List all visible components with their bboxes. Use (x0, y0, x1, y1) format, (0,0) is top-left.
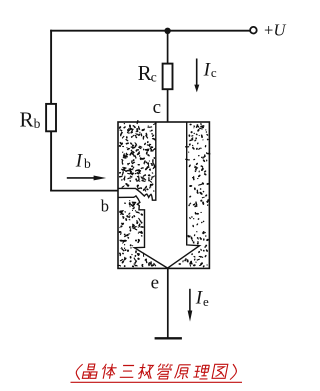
transistor body outer rectangle (118, 122, 209, 268)
ground bar (155, 337, 182, 339)
node junction dot at top rail / collector branch (164, 28, 170, 34)
transistor right N region boundary (left edge along arrow shaft, arrowhead right barb) (167, 122, 199, 268)
wire collector vertical lower (Rc to block c terminal) (167, 89, 169, 122)
terminal +U open circle (250, 27, 257, 34)
current arrow Ie (189, 289, 191, 311)
resistor Rb body (46, 104, 56, 131)
wire left vertical lower segment (Rb down to base wire) (50, 131, 52, 191)
current arrow Ic (196, 59, 198, 86)
wire left vertical upper segment (top rail down to Rb) (50, 30, 52, 104)
svg-text:b: b (34, 116, 41, 131)
stipple texture upper-left region (118, 120, 156, 192)
stipple texture right region (178, 123, 210, 268)
svg-text:c: c (153, 97, 161, 118)
svg-text:e: e (203, 294, 209, 309)
caption (晶体三极管原理图) hand-drawn red strokes (75, 364, 238, 380)
svg-text:c: c (151, 70, 157, 85)
svg-text:c: c (211, 65, 217, 80)
svg-text:b: b (84, 156, 91, 171)
caption underline (71, 381, 243, 383)
svg-text:R: R (138, 61, 152, 85)
svg-text:U: U (274, 21, 287, 40)
wire top horizontal from left branch to +U terminal (50, 30, 250, 32)
svg-text:e: e (151, 273, 159, 294)
current arrow Ib (67, 177, 94, 179)
transistor upper-left P region boundary (jagged bottom edge and right edge along arrow shaft) (118, 122, 156, 200)
wire collector vertical upper (junction to Rc) (167, 31, 169, 64)
wire base horizontal into transistor b terminal (50, 190, 118, 192)
resistor Rc body (163, 64, 173, 90)
transistor lower-left region boundary (jagged top edge, right edge, arrowhead left barb) (118, 196, 167, 268)
wire emitter vertical down to ground (167, 268, 169, 338)
svg-text:b: b (101, 196, 109, 215)
svg-text:+: + (264, 21, 273, 40)
stipple texture lower-left region (117, 200, 155, 268)
svg-text:R: R (20, 108, 34, 132)
